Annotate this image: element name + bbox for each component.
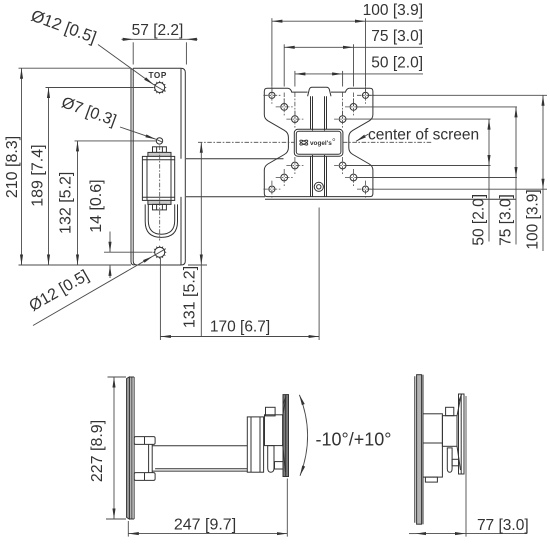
svg-text:TOP: TOP — [148, 71, 166, 80]
svg-text:50 [2.0]: 50 [2.0] — [471, 194, 488, 246]
svg-text:50 [2.0]: 50 [2.0] — [371, 55, 423, 72]
svg-text:131 [5.2]: 131 [5.2] — [181, 266, 198, 328]
svg-text:vogel's: vogel's — [310, 140, 332, 147]
svg-text:227 [8.9]: 227 [8.9] — [89, 420, 106, 482]
svg-text:189 [7.4]: 189 [7.4] — [29, 144, 46, 206]
svg-text:center of screen: center of screen — [368, 126, 479, 143]
svg-text:57 [2.2]: 57 [2.2] — [132, 22, 184, 39]
svg-text:132 [5.2]: 132 [5.2] — [58, 172, 75, 234]
svg-text:-10°/+10°: -10°/+10° — [316, 430, 392, 450]
svg-text:247 [9.7]: 247 [9.7] — [174, 517, 236, 534]
svg-text:210 [8.3]: 210 [8.3] — [4, 136, 21, 198]
svg-text:100 [3.9]: 100 [3.9] — [524, 189, 541, 249]
svg-text:100 [3.9]: 100 [3.9] — [363, 2, 423, 19]
svg-text:170 [6.7]: 170 [6.7] — [210, 319, 270, 336]
svg-text:77 [3.0]: 77 [3.0] — [477, 517, 529, 534]
svg-text:14 [0.6]: 14 [0.6] — [88, 179, 105, 232]
svg-text:75 [3.0]: 75 [3.0] — [371, 28, 423, 45]
svg-text:75 [3.0]: 75 [3.0] — [497, 194, 514, 246]
